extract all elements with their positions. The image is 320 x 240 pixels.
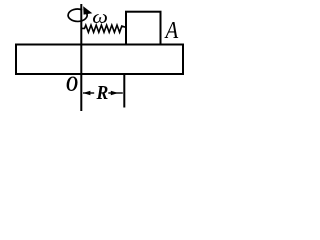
R dimension right arrow xyxy=(108,92,123,94)
svg-text:A: A xyxy=(164,17,179,44)
spring xyxy=(82,25,126,32)
right tick below block edge xyxy=(123,75,125,108)
rotation arc around axis xyxy=(68,9,87,21)
omega label xyxy=(92,8,108,28)
platform (horizontal turntable bar) xyxy=(16,45,183,75)
axis (vertical rotation shaft line) xyxy=(80,4,82,111)
svg-text:R: R xyxy=(96,82,109,104)
rotation arrowhead xyxy=(83,6,92,14)
svg-text:O: O xyxy=(66,71,78,96)
block A xyxy=(126,12,161,45)
svg-text:ω: ω xyxy=(92,8,108,28)
R dimension left arrow xyxy=(83,92,94,94)
